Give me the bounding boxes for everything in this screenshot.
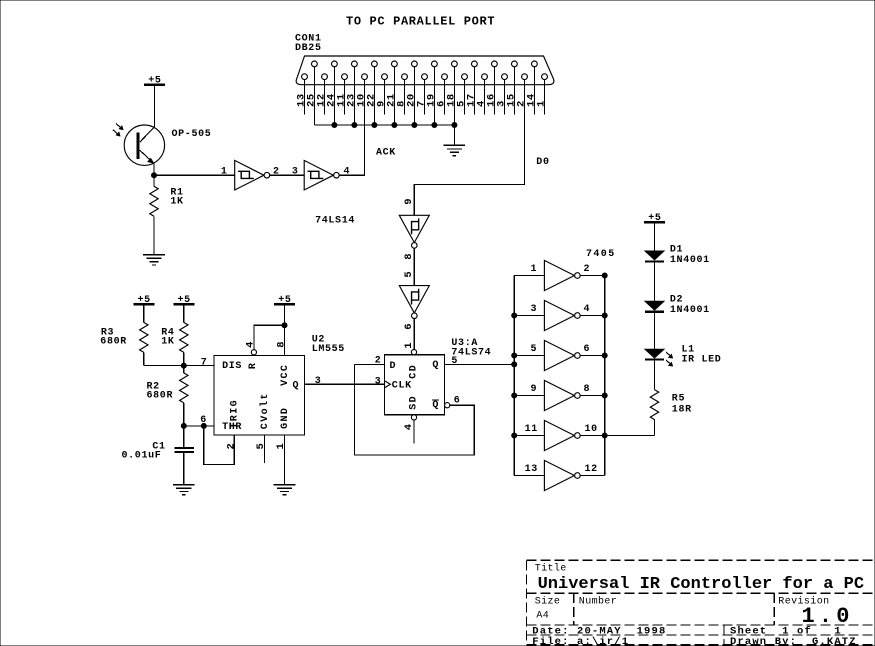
diode D1 1N4001 — [645, 251, 664, 261]
svg-text:R5: R5 — [672, 394, 685, 405]
svg-text:File: a:\ir/1: File: a:\ir/1 — [532, 636, 629, 646]
wire pin 15 stub — [513, 67, 515, 115]
wire U2 reset to VCC rail — [254, 325, 285, 349]
svg-text:CD: CD — [409, 364, 420, 379]
wire 7405 input bus — [513, 276, 515, 476]
wire input pin 9 — [514, 395, 544, 397]
svg-text:2: 2 — [584, 264, 591, 275]
svg-text:10: 10 — [585, 424, 598, 435]
svg-text:13: 13 — [525, 464, 538, 475]
resistor R1 — [150, 186, 158, 216]
junction output bus — [602, 393, 607, 398]
svg-text:TRIG: TRIG — [230, 399, 241, 429]
inverter U1C 74LS14 (pins 9-8) — [399, 215, 429, 248]
+5 rail (R4) — [173, 295, 194, 306]
inverter U4C 7405 (pins 5-6) — [544, 340, 580, 370]
svg-text:LM555: LM555 — [312, 344, 345, 355]
wire THR node to U2 pin 6 — [184, 425, 214, 427]
wire R4 to DIS node — [183, 352, 185, 365]
junction ground bus — [352, 123, 357, 128]
junction output bus — [602, 313, 607, 318]
capacitor C1 — [175, 448, 194, 452]
svg-text:74LS14: 74LS14 — [315, 216, 355, 227]
svg-text:15: 15 — [505, 93, 517, 107]
wire stub pin 6 — [444, 80, 446, 115]
junction reset/VCC — [282, 323, 287, 328]
junction ground bus — [432, 123, 437, 128]
wire U2 GND to ground — [284, 435, 286, 485]
wire pin 25 to ground bus — [313, 67, 315, 125]
overbar of Q-bar — [432, 399, 439, 401]
svg-text:1N4001: 1N4001 — [670, 255, 710, 266]
inverter U4F 7405 (pins 13-12) — [544, 460, 580, 490]
svg-text:5: 5 — [403, 271, 415, 278]
svg-text:D2: D2 — [670, 294, 683, 305]
svg-text:0.01uF: 0.01uF — [122, 450, 162, 461]
svg-text:R: R — [248, 362, 259, 369]
wire pin 16 stub — [493, 67, 495, 115]
svg-text:6: 6 — [584, 344, 591, 355]
wire input pin 11 — [514, 435, 544, 437]
junction TRIG/THR — [201, 423, 206, 428]
inverter U1B 74LS14 (pins 3-4) — [304, 160, 339, 190]
svg-text:CVolt: CVolt — [259, 392, 271, 429]
wire pin 18 to ground bus — [453, 67, 455, 125]
wire input pin 13 — [514, 475, 544, 477]
svg-text:14: 14 — [525, 93, 537, 107]
junction input bus — [512, 393, 517, 398]
svg-text:1K: 1K — [170, 197, 183, 208]
wire pin 22 to ground bus — [373, 67, 375, 125]
+5 rail (U2 VCC) — [274, 295, 295, 306]
wire R3 to DIS node — [143, 352, 145, 365]
wire output pin 6 — [580, 355, 605, 357]
phototransistor Q1 OP-505 — [113, 124, 165, 176]
svg-text:IR LED: IR LED — [682, 354, 722, 365]
svg-text:23: 23 — [345, 93, 357, 107]
svg-text:2: 2 — [226, 443, 238, 450]
wire stub pin 1 — [544, 80, 546, 115]
resistor R2 — [180, 373, 188, 403]
junction output bus — [602, 353, 607, 358]
svg-text:1: 1 — [221, 166, 228, 177]
inverter U4B 7405 (pins 3-4) — [544, 300, 580, 330]
wire stub pin 5 — [464, 80, 466, 115]
svg-text:17: 17 — [465, 93, 477, 107]
svg-text:A4: A4 — [536, 611, 549, 622]
connector CON1 DB25 — [296, 56, 554, 85]
wire stub pin 13 — [304, 80, 306, 115]
svg-text:1: 1 — [275, 443, 287, 450]
svg-text:1N4001: 1N4001 — [670, 305, 710, 316]
svg-text:CLK: CLK — [392, 381, 412, 392]
wire U1B output to CON1 pin 10 (ACK net) — [339, 80, 364, 176]
wire pin 20 to ground bus — [413, 67, 415, 125]
junction input bus — [512, 313, 517, 318]
wire stub pin 12 — [324, 80, 326, 115]
+5 rail (R3) — [133, 295, 154, 306]
ground (C1) — [173, 485, 195, 495]
wire +5 to U2 VCC — [284, 304, 286, 356]
svg-text:3: 3 — [531, 304, 538, 315]
svg-text:8: 8 — [403, 253, 415, 260]
svg-text:VCC: VCC — [280, 364, 291, 386]
wire stub pin 4 — [484, 80, 486, 115]
svg-text:9: 9 — [403, 198, 415, 205]
junction input bus — [512, 433, 517, 438]
junction output bus — [602, 273, 607, 278]
wire U1A output to U1B input — [270, 174, 304, 176]
svg-text:1: 1 — [403, 342, 415, 349]
resistor R5 — [650, 390, 658, 420]
wire U1C output to U1D input — [413, 248, 415, 285]
svg-text:16: 16 — [485, 93, 497, 107]
inverter U4E 7405 (pins 11-10) — [544, 420, 580, 450]
svg-text:680R: 680R — [147, 391, 174, 402]
wire U3 D to feedback loop — [355, 363, 385, 365]
svg-text:8: 8 — [275, 341, 287, 348]
junction R3/R4/R2 DIS node — [181, 363, 186, 368]
svg-text:Q: Q — [432, 400, 439, 411]
svg-text:22: 22 — [365, 93, 377, 107]
wire +5 to D1 — [654, 222, 656, 251]
svg-text:11: 11 — [525, 424, 538, 435]
junction ground bus — [332, 123, 337, 128]
+5 rail (LED chain) — [644, 213, 665, 224]
svg-text:8: 8 — [584, 384, 591, 395]
svg-text:18: 18 — [445, 93, 457, 107]
junction ground bus — [452, 123, 457, 128]
svg-text:9: 9 — [531, 384, 538, 395]
junction input bus — [512, 362, 517, 367]
inverter U1A 74LS14 (pins 1-2) — [235, 160, 270, 190]
svg-text:19: 19 — [425, 93, 437, 107]
svg-text:18R: 18R — [672, 404, 692, 415]
wire +5 to Q1 collector — [153, 85, 155, 127]
wire pin 19 to ground bus — [433, 67, 435, 125]
wire output pin 8 — [580, 395, 605, 397]
wire DIS node to U2 pin 7 — [144, 365, 214, 367]
LED L1 IR LED — [645, 349, 673, 366]
wire U3 Q to 7405 input bus — [445, 363, 515, 365]
wire R1 to ground — [153, 216, 155, 255]
timer U2 LM555 — [214, 350, 305, 435]
wire pin 23 to ground bus — [353, 67, 355, 125]
wire ground bus to ground — [453, 125, 455, 145]
svg-text:5: 5 — [255, 443, 267, 450]
wire output bus to R5 — [605, 435, 655, 437]
svg-text:D0: D0 — [536, 157, 549, 168]
svg-text:4: 4 — [403, 423, 415, 430]
svg-text:Q: Q — [293, 380, 300, 391]
svg-text:680R: 680R — [100, 336, 127, 347]
resistor R4 — [180, 322, 188, 352]
wire R5 to output bus — [654, 420, 656, 436]
svg-text:6: 6 — [403, 323, 415, 330]
wire input pin 3 — [514, 315, 544, 317]
svg-text:3: 3 — [315, 376, 322, 387]
svg-text:D1: D1 — [670, 244, 683, 255]
wire input pin 1 — [514, 275, 544, 277]
wire +5 to R4 — [183, 304, 185, 322]
junction ground bus — [392, 123, 397, 128]
ground (U2) — [274, 485, 296, 495]
resistor R3 — [140, 322, 148, 352]
wire D1 to D2 — [654, 262, 656, 301]
svg-text:21: 21 — [385, 93, 397, 107]
wire output pin 12 — [580, 475, 605, 477]
svg-text:TO PC PARALLEL PORT: TO PC PARALLEL PORT — [346, 15, 495, 29]
svg-text:5: 5 — [531, 344, 538, 355]
junction input bus — [512, 353, 517, 358]
wire ground bus (pins 18-25) — [314, 124, 454, 126]
wire Q1 emitter to U1A input — [154, 174, 235, 176]
wire pin 14 stub — [533, 67, 535, 115]
wire stub pin 8 — [404, 80, 406, 115]
wire output pin 4 — [580, 315, 605, 317]
inverter U1D 74LS14 (pins 5-6) — [399, 286, 429, 319]
title block — [527, 560, 875, 644]
svg-text:GND: GND — [280, 407, 291, 429]
svg-text:7: 7 — [201, 357, 208, 368]
ground (parallel port) — [444, 145, 466, 155]
svg-text:Q: Q — [432, 360, 439, 371]
inverter U4A 7405 (pins 1-2) — [544, 260, 580, 290]
svg-text:Universal IR Controller for a: Universal IR Controller for a PC — [538, 575, 864, 594]
wire CON1 pin 2 to U1C input (D0 net) — [414, 80, 524, 216]
wire U2 TRIG loop to THR node — [204, 426, 234, 465]
wire output pin 10 — [580, 435, 605, 437]
flip-flop U3:A 74LS74 — [385, 350, 450, 421]
svg-text:1K: 1K — [161, 336, 174, 347]
svg-text:D: D — [390, 361, 397, 372]
wire stub pin 9 — [384, 80, 386, 115]
wire D2 to L1 — [654, 313, 656, 350]
wire U2 CVolt stub — [263, 435, 265, 463]
svg-text:25: 25 — [305, 93, 317, 107]
ground (R1) — [143, 255, 165, 265]
wire stub pin 11 — [344, 80, 346, 115]
svg-text:5: 5 — [451, 356, 458, 367]
svg-text:4: 4 — [245, 341, 257, 348]
wire U3 Q-bar feedback to D — [355, 364, 475, 455]
svg-text:Drawn By: G.KATZ: Drawn By: G.KATZ — [730, 636, 857, 646]
svg-text:12: 12 — [585, 464, 598, 475]
wire U1D output to U3 CD — [413, 319, 415, 350]
wire R2 to THR node — [183, 403, 185, 426]
svg-text:SD: SD — [409, 395, 420, 410]
wire +5 to R3 — [143, 304, 145, 322]
junction R2/C1 THR node — [181, 423, 186, 428]
junction ground bus — [372, 123, 377, 128]
wire node to C1 — [183, 426, 185, 447]
+5 rail (phototransistor) — [144, 76, 165, 87]
wire output pin 2 — [580, 275, 605, 277]
svg-text:1: 1 — [531, 264, 538, 275]
wire input pin 5 — [514, 355, 544, 357]
wire node to R1 — [153, 178, 155, 187]
wire pin 21 to ground bus — [393, 67, 395, 125]
svg-text:7405: 7405 — [586, 249, 616, 260]
wire stub pin 7 — [424, 80, 426, 115]
wire stub pin 3 — [504, 80, 506, 115]
wire C1 to ground — [183, 453, 185, 485]
junction Q1 emitter node — [152, 173, 157, 178]
inverter U4D 7405 (pins 9-8) — [544, 380, 580, 410]
wire 7405 output bus — [604, 276, 606, 476]
wire U2 Q to U3 CLK — [305, 383, 385, 385]
svg-text:Title: Title — [535, 562, 567, 574]
wire node to R2 — [183, 366, 185, 373]
wire U3 SD stub — [413, 420, 415, 444]
svg-text:20: 20 — [405, 93, 417, 107]
svg-text:Number: Number — [579, 595, 617, 607]
svg-text:Size: Size — [535, 595, 561, 607]
svg-text:3: 3 — [292, 166, 299, 177]
svg-text:ACK: ACK — [376, 148, 396, 159]
svg-text:DB25: DB25 — [295, 43, 322, 54]
svg-text:3: 3 — [375, 376, 382, 387]
wire pin 17 stub — [473, 67, 475, 115]
svg-text:24: 24 — [325, 93, 337, 107]
wire L1 to R5 — [654, 361, 656, 390]
svg-text:DIS: DIS — [222, 361, 242, 372]
junction output bus — [602, 433, 607, 438]
junction ground bus — [412, 123, 417, 128]
svg-text:OP-505: OP-505 — [172, 129, 212, 140]
diode D2 1N4001 — [645, 301, 664, 311]
svg-text:4: 4 — [584, 304, 591, 315]
wire pin 24 to ground bus — [333, 67, 335, 125]
